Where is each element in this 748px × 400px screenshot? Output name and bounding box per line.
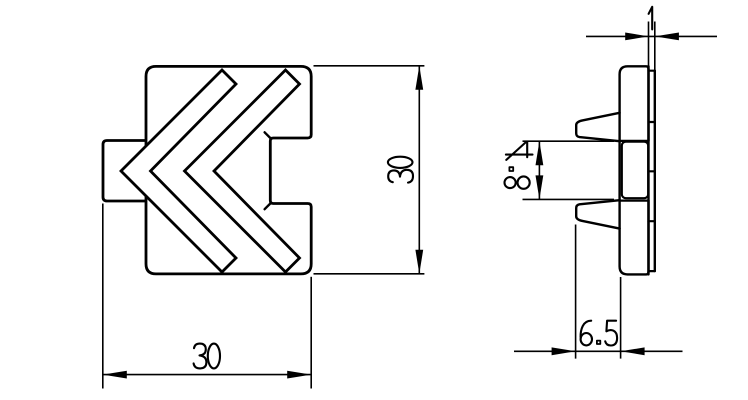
dim 1 top: dimension line: [586, 35, 717, 37]
middle tab cross-section: [622, 142, 648, 199]
plate tick upper: [649, 121, 655, 123]
body left edge middle segment: [618, 141, 620, 201]
dim 6.5: extension line left: [575, 225, 577, 359]
plate tick middle: [649, 170, 655, 172]
dim 8.4: extension line top: [523, 140, 615, 142]
text 30 right (rotated): digit 0: [388, 157, 413, 168]
text 8.4 (rotated): digit 8: [505, 177, 516, 188]
dim 6.5: extension line right: [620, 277, 622, 359]
notch corner chamfer stub top: [265, 132, 271, 138]
chevron band 1 (outer arrow): [121, 70, 236, 272]
top slab outline: [620, 66, 649, 141]
arrow 30 right top: [415, 66, 423, 90]
top slab bottom line: [620, 140, 649, 142]
dim 30 right: extension line top: [314, 65, 425, 67]
dim 6.5: dimension line: [514, 350, 683, 352]
arrow 8.4 top: [536, 141, 544, 165]
bottom slab outline: [620, 201, 649, 275]
dim 30 bottom: dimension line: [103, 374, 311, 376]
dim 30 right: dimension line: [418, 66, 420, 274]
text 6.5: digit 5: [605, 321, 617, 346]
dim 30 right: extension line bottom: [314, 273, 425, 275]
text 1 top: [649, 7, 653, 30]
arrow 6.5 right (outside): [621, 347, 645, 355]
arrow 30 right bottom: [415, 250, 423, 274]
bottom snap barb: [576, 200, 619, 228]
notch corner chamfer stub bottom: [265, 204, 271, 210]
text 8.4 (rotated): digit 4: [506, 142, 533, 160]
text 6.5: digit 6: [581, 321, 592, 337]
plate top tick: [649, 70, 655, 72]
bottom slab top line: [620, 200, 649, 202]
dim 30 bottom: extension line left: [102, 204, 104, 389]
left tab (mounting lug): [103, 141, 148, 202]
arrow 1 right (outside): [655, 33, 679, 41]
face plate left edge: [647, 66, 649, 274]
dim 1 top: extension line right: [654, 22, 656, 71]
arrow 8.4 bottom: [536, 175, 544, 199]
chevron band 2 (inner arrow): [185, 70, 300, 272]
arrow 30 bottom left: [103, 371, 127, 379]
arrow 6.5 left (outside): [552, 347, 576, 355]
dim 8.4: dimension line: [538, 141, 540, 199]
arrow 1 left (outside): [625, 33, 648, 41]
dim 30 bottom: extension line right: [310, 277, 312, 389]
plate tick lower: [649, 220, 655, 222]
dim 8.4: extension line bottom: [523, 198, 615, 200]
text 30 right (rotated): digit 3: [388, 170, 413, 183]
arrow 30 bottom right: [287, 371, 311, 379]
text 30 bottom: digit 0: [208, 344, 220, 369]
plate bottom tick: [649, 270, 655, 272]
face plate right edge: [654, 71, 656, 271]
top snap barb: [576, 113, 619, 141]
text 8.4 (rotated): decimal point: [509, 167, 513, 171]
dim 1 top: extension line left: [648, 22, 650, 67]
text 6.5: decimal point: [597, 341, 600, 344]
text 30 bottom: digit 3: [194, 344, 207, 369]
main body plate with right notch: [146, 66, 311, 274]
